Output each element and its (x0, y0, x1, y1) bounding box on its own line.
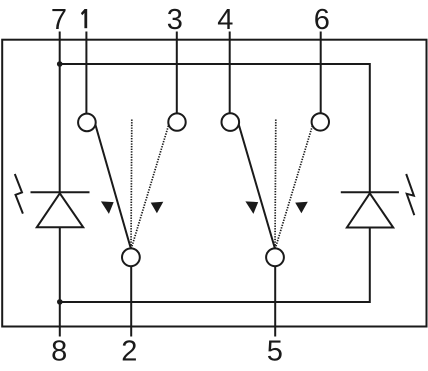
svg-text:6: 6 (314, 4, 330, 36)
svg-text:7: 7 (51, 4, 67, 36)
svg-text:2: 2 (121, 336, 137, 368)
svg-text:4: 4 (217, 4, 233, 36)
svg-text:8: 8 (51, 336, 67, 368)
svg-text:5: 5 (267, 336, 283, 368)
svg-text:3: 3 (167, 4, 183, 36)
